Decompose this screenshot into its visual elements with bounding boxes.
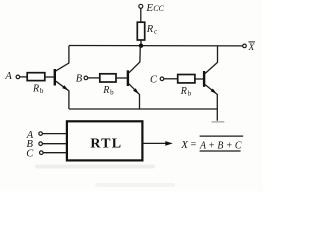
label Rb2 [102, 85, 114, 97]
wire Rb1 to Q1 base [45, 76, 54, 78]
wire block input A [43, 133, 67, 135]
svg-text:X: X [180, 139, 189, 151]
resistor Rb2 [100, 74, 116, 82]
svg-text:RTL: RTL [90, 136, 122, 151]
svg-text:CC: CC [153, 4, 164, 13]
svg-text:b: b [110, 89, 114, 97]
transistor Q1 [55, 46, 69, 109]
svg-text:E: E [145, 2, 153, 14]
input terminal B [84, 76, 88, 80]
transistor Q3 [204, 46, 217, 121]
scan smudge (decorative) [35, 165, 175, 188]
svg-text:b: b [40, 87, 44, 95]
svg-text:C: C [26, 148, 34, 159]
svg-text:C: C [150, 75, 158, 86]
label Rb3 [180, 86, 192, 98]
label input A [4, 71, 12, 82]
wire Rb2 to Q2 base [116, 77, 127, 79]
svg-text:A + B + C: A + B + C [199, 139, 242, 151]
label input C [150, 75, 158, 86]
power terminal Ecc [139, 4, 143, 22]
svg-text:=: = [191, 140, 197, 151]
ground [212, 121, 225, 123]
svg-text:b: b [188, 90, 192, 98]
wire collector rail [69, 45, 243, 47]
wire A terminal to Rb1 [20, 76, 27, 78]
svg-text:X: X [248, 43, 256, 53]
label block input C [26, 148, 34, 159]
wire B terminal to Rb2 [88, 77, 100, 79]
resistor Rb1 [27, 73, 45, 81]
input terminal C [160, 77, 164, 81]
wire block input C [43, 152, 67, 154]
block input terminal B [39, 142, 43, 146]
wire C terminal to Rb3 [164, 78, 178, 80]
label Ecc [145, 2, 164, 14]
label Rc [146, 24, 158, 36]
input terminal A [16, 75, 20, 79]
svg-text:R: R [180, 86, 187, 97]
block input terminal A [39, 132, 43, 136]
svg-text:B: B [76, 74, 83, 85]
label block input A [26, 130, 34, 141]
output terminal X [243, 44, 247, 48]
svg-text:R: R [146, 24, 154, 35]
svg-text:A: A [4, 71, 12, 82]
block input terminal C [40, 151, 44, 155]
label block input B [27, 139, 34, 150]
RTL block box [67, 121, 142, 160]
label input B [76, 74, 83, 85]
wire Rb3 to Q3 base [195, 78, 203, 80]
junction dot Rc/rail [139, 44, 143, 48]
label output X (with overbar) [248, 42, 256, 53]
transistor Q2 [128, 46, 140, 109]
svg-text:R: R [32, 84, 39, 95]
label expression X = NOT(A+B+C) [180, 136, 243, 151]
wire block output with arrow [143, 141, 173, 146]
resistor Rc [137, 22, 144, 45]
label RTL [90, 136, 122, 151]
svg-text:R: R [102, 85, 109, 96]
wire block input B [43, 143, 67, 145]
wire emitter rail [69, 108, 217, 110]
label Rb1 [32, 84, 44, 96]
resistor Rb3 [178, 75, 195, 83]
